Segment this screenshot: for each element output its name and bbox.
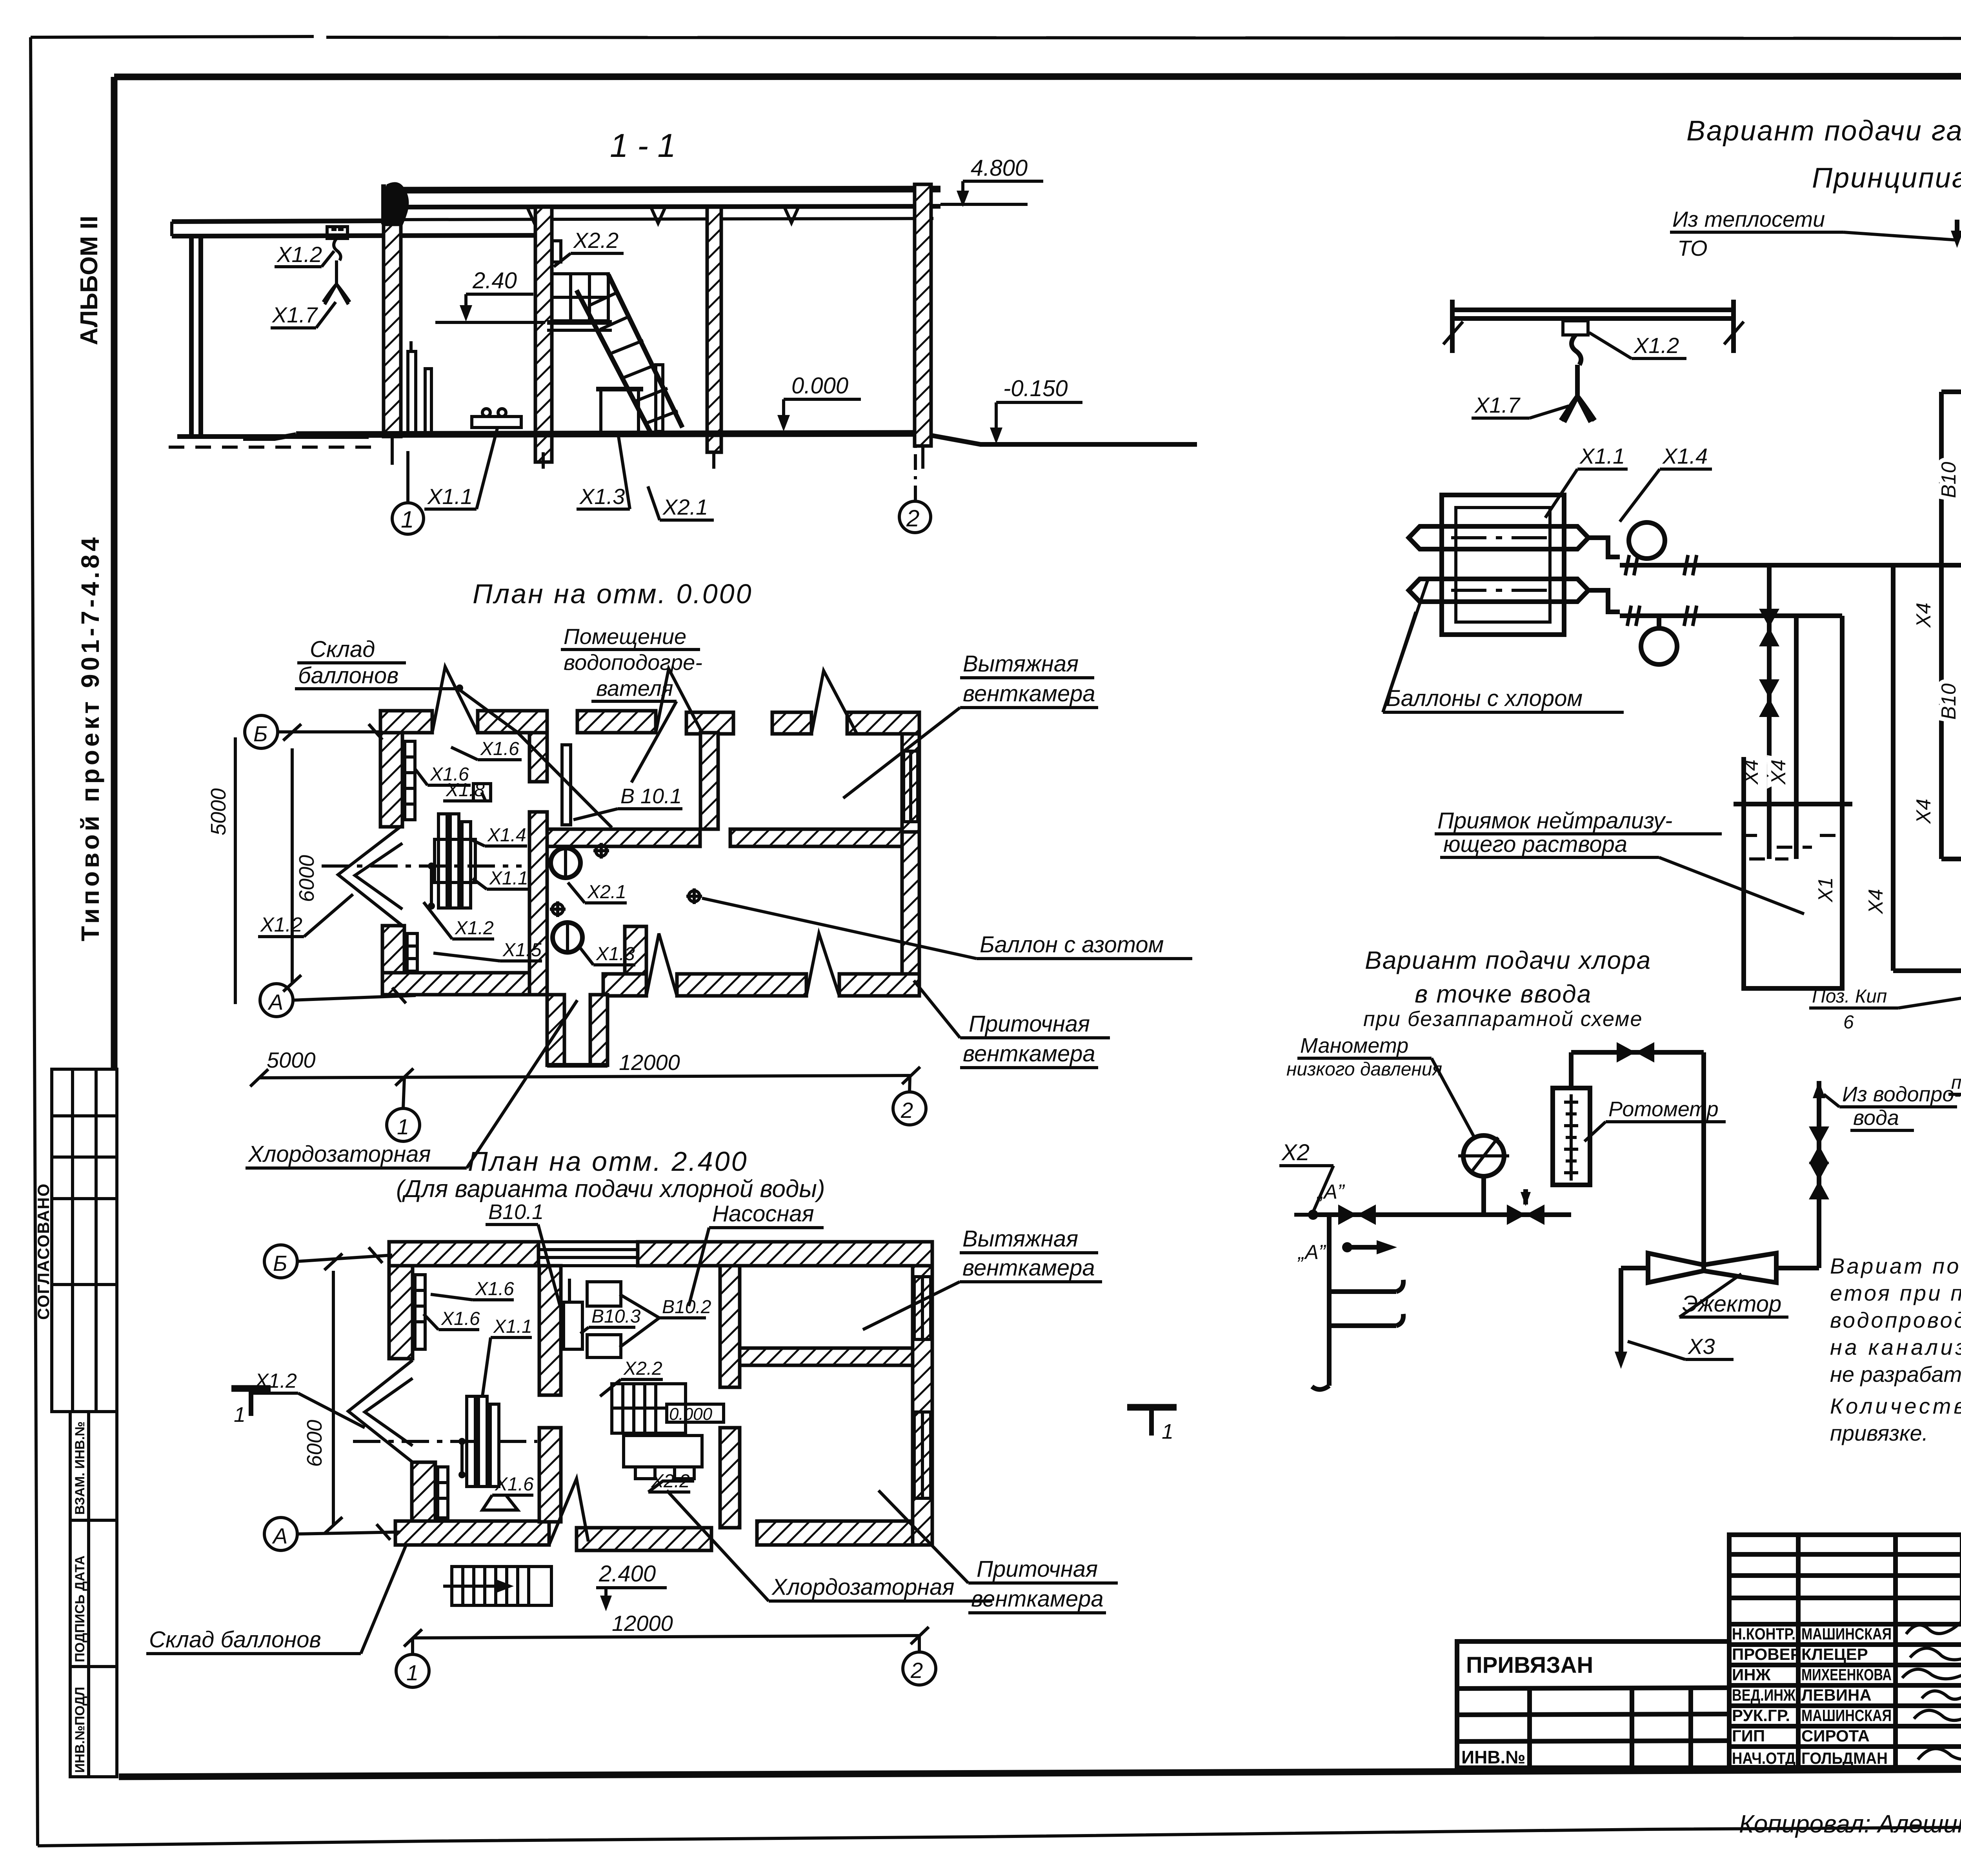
svg-text:Баллоны с хлором: Баллоны с хлором (1386, 686, 1583, 711)
svg-text:X2.1: X2.1 (662, 495, 708, 519)
trolley (schema) (1563, 321, 1588, 335)
axis bubble 1 (plan1) (387, 1078, 420, 1141)
svg-text:Поз. Кип: Поз. Кип (1812, 986, 1887, 1007)
windows right wall (904, 751, 918, 822)
svg-text:Помещение: Помещение (564, 624, 686, 649)
svg-text:X1.1: X1.1 (493, 1316, 532, 1337)
svg-text:(Для варианта подачи хлорной: (Для варианта подачи хлорной воды) (396, 1175, 825, 1203)
svg-text:2: 2 (900, 1098, 913, 1123)
chlorine bottle lower (1409, 579, 1588, 602)
svg-text:Х4: Х4 (1912, 799, 1935, 824)
KIP6 sensor (1809, 971, 1961, 1033)
tambour below (547, 995, 608, 1065)
pipe rotameter top loop (1571, 1042, 1704, 1266)
svg-text:НАЧ.ОТД: НАЧ.ОТД (1732, 1749, 1795, 1767)
level mark 2.40 (435, 268, 545, 322)
ejector outlet to water (1776, 1081, 1829, 1268)
svg-text:при безаппаратной схеме: при безаппаратной схеме (1363, 1007, 1643, 1031)
label X1.3 (section) (577, 431, 630, 509)
svg-text:АЛЬБОМ II: АЛЬБОМ II (76, 216, 103, 345)
X4 X4 rotated labels (1740, 759, 1790, 785)
vertical dim 6000 (plan1) (283, 724, 318, 992)
B10.1 duct (562, 745, 571, 825)
svg-text:План на отм. 0.000: План на отм. 0.000 (473, 579, 753, 609)
wall2 vertical (plan2) (720, 1266, 740, 1387)
parapet above wall1 (381, 184, 386, 224)
svg-text:„А”: „А” (1297, 1241, 1326, 1264)
main roof slab (384, 189, 940, 224)
label iz teploseti TO (1670, 207, 1961, 260)
svg-text:X1.4: X1.4 (487, 825, 526, 846)
axis bubble A (plan2) (264, 1518, 400, 1550)
elevation mark -0.150 (990, 376, 1082, 444)
label B10.1 (plan1) (573, 784, 682, 820)
svg-text:вода: вода (1853, 1106, 1899, 1130)
svg-text:вателя: вателя (596, 676, 673, 701)
valve on tank pipe1 lower (1759, 679, 1779, 717)
vertical dim 6000 (plan2) (303, 1254, 342, 1534)
bottle in room2 (656, 365, 663, 431)
label X2.2 (section) (552, 228, 624, 267)
svg-text:Х4: Х4 (1865, 889, 1887, 914)
svg-text:ЛЕВИНА: ЛЕВИНА (1801, 1686, 1872, 1704)
svg-text:МАШИНСКАЯ: МАШИНСКАЯ (1801, 1706, 1892, 1725)
svg-text:ВЗАМ. ИНВ.№: ВЗАМ. ИНВ.№ (73, 1421, 87, 1515)
left stamp column lower (70, 1412, 117, 1777)
hook below trolley (334, 238, 341, 260)
tank pipe 2 (1794, 616, 1799, 859)
svg-text:Б: Б (273, 1251, 287, 1276)
manometer gauge circle (1458, 1135, 1509, 1215)
svg-text:Х4: Х4 (1767, 759, 1790, 785)
svg-text:Хлордозаторная: Хлордозаторная (771, 1574, 954, 1600)
svg-text:венткамера: венткамера (962, 1255, 1095, 1281)
svg-text:X2.1: X2.1 (587, 882, 626, 903)
annex column (191, 236, 201, 437)
lower X1 line (1893, 957, 1961, 1028)
svg-text:водопроводных станций и смесит: водопроводных станций и смесителей воды … (1830, 1308, 1961, 1332)
svg-text:6000: 6000 (303, 1420, 326, 1467)
svg-text:Копировал: Алешикова: Копировал: Алешикова (1739, 1810, 1961, 1838)
grab X1.7 (schema) (1561, 396, 1595, 422)
svg-text:План на отм. 2.400: План на отм. 2.400 (468, 1146, 748, 1177)
svg-text:X1.3: X1.3 (596, 944, 635, 964)
axis dash-dot horizontal (plan1) (322, 864, 522, 868)
level 2.400 mark (plan2) (596, 1561, 667, 1611)
corridor T wall (625, 926, 646, 974)
svg-text:Приточная: Приточная (969, 1011, 1090, 1037)
svg-text:X1.4: X1.4 (1662, 444, 1708, 468)
svg-text:В10.1: В10.1 (488, 1200, 544, 1224)
svg-text:баллонов: баллонов (298, 663, 398, 688)
svg-text:12000: 12000 (612, 1611, 673, 1636)
svg-text:ющего раствора: ющего раствора (1443, 832, 1627, 857)
door bottom2 (806, 933, 839, 996)
label ballon s azotom (702, 898, 1192, 959)
svg-text:ИНЖ: ИНЖ (1732, 1665, 1771, 1684)
section cut mark 1 left (plan2) (231, 1388, 271, 1427)
dashed underground line (169, 446, 377, 449)
door leaf ventkamera (811, 671, 857, 734)
svg-text:Хлордозаторная: Хлордозаторная (247, 1141, 431, 1167)
axis bubble 1 (plan2) (396, 1638, 429, 1687)
svg-text:X1.2: X1.2 (260, 913, 302, 936)
svg-text:В10: В10 (1937, 462, 1960, 498)
privyazan box (1457, 1641, 1729, 1768)
lower chlorine line (1620, 606, 1842, 626)
svg-text:1: 1 (397, 1114, 409, 1139)
svg-text:X2.2: X2.2 (573, 228, 618, 253)
svg-text:СОГЛАСОВАНО: СОГЛАСОВАНО (34, 1183, 53, 1320)
svg-text:ПОДПИСЬ ДАТА: ПОДПИСЬ ДАТА (73, 1556, 87, 1662)
axis dash-dot (plan2) (353, 1440, 537, 1443)
label X1.4 (schema bottles) (1620, 444, 1712, 522)
vertical dim 5000 (plan1) (207, 737, 235, 1004)
vertical drop with consumer hooks (1312, 1215, 1403, 1390)
svg-text:Приточная: Приточная (977, 1556, 1098, 1582)
svg-text:4.800: 4.800 (971, 155, 1028, 181)
main line tochka vvoda (1313, 1189, 1571, 1225)
svg-text:X1.8: X1.8 (446, 780, 485, 801)
top wall right ventkamera (772, 712, 811, 734)
axis bubble A (plan1) (260, 984, 416, 1017)
svg-text:Вариант подачи хлора: Вариант подачи хлора (1365, 946, 1651, 974)
axis bubble 2 (plan1) (893, 1076, 926, 1125)
main floor slab (243, 433, 915, 439)
svg-text:1: 1 (406, 1660, 418, 1685)
mezzanine landing (547, 322, 612, 330)
top wall (plan2) (389, 1242, 538, 1266)
svg-text:12000: 12000 (619, 1050, 680, 1075)
svg-text:„А”: „А” (1316, 1181, 1345, 1203)
B10 riser (1937, 258, 1961, 1186)
svg-text:водоподогре-: водоподогре- (564, 650, 702, 675)
label nasosnaya (689, 1201, 824, 1306)
label pomeschenie vodopodogrevatelya (561, 624, 702, 782)
bottle lower outlet pipe (1588, 590, 1620, 612)
svg-text:X1.7: X1.7 (1474, 393, 1521, 417)
label X1.1 (section) (424, 428, 497, 509)
svg-text:X1.2: X1.2 (455, 918, 494, 939)
svg-text:Приямок нейтрализу-: Приямок нейтрализу- (1437, 808, 1672, 833)
ejector drain to X3 (1615, 1268, 1648, 1369)
svg-text:венткамера: венткамера (963, 681, 1095, 706)
label X1.2 (schema) (1589, 333, 1686, 358)
svg-text:Вариат подачи хлора в точке вв: Вариат подачи хлора в точке ввода предус… (1830, 1254, 1961, 1278)
label X2 (subschema) (1279, 1140, 1333, 1212)
small cross symbols X2.1 (550, 843, 702, 917)
X4 riser (1912, 392, 1941, 859)
svg-text:1: 1 (401, 506, 414, 533)
label pritochnaya ventkamera (plan2) (879, 1490, 1118, 1613)
bottles frame inner (1456, 508, 1550, 622)
label X1.7 (section) (271, 302, 336, 328)
elevation mark 0.000 (777, 373, 861, 431)
gauge circle upper (1629, 522, 1665, 559)
bottom wall (plan2) (395, 1521, 549, 1545)
annex floor line (177, 434, 369, 439)
left wall lower (382, 926, 404, 973)
platform scale X1.1 (472, 409, 521, 428)
label rotameter (1584, 1097, 1726, 1141)
svg-text:венткамера: венткамера (963, 1041, 1095, 1066)
X1 rotated label tank right (1814, 565, 1893, 971)
axis bubble B (plan2) (264, 1245, 392, 1278)
svg-text:2.40: 2.40 (472, 268, 517, 293)
gate leafs (plan2) (348, 1360, 413, 1462)
top wall heater room (577, 711, 656, 733)
label X1.2 (section) (275, 242, 334, 267)
svg-text:1 - 1: 1 - 1 (610, 127, 676, 164)
upper chlorine line X1 (1620, 555, 1961, 575)
bottle rack (plan2) (458, 1396, 499, 1487)
svg-text:X1.6: X1.6 (495, 1474, 534, 1495)
svg-text:венткамера: венткамера (971, 1586, 1104, 1612)
svg-text:6000: 6000 (295, 855, 318, 902)
neutralizing pit tank (1734, 757, 1852, 988)
svg-text:А: А (272, 1523, 287, 1548)
chlorine bottle upper (1409, 526, 1588, 549)
label priyamok (1435, 808, 1804, 914)
svg-text:X2: X2 (1281, 1140, 1310, 1165)
interior labels plan1 (451, 739, 522, 760)
label X1.1 (schema bottles) (1545, 444, 1628, 518)
gauge circle lower (1641, 628, 1677, 664)
label X3 (1628, 1334, 1734, 1359)
svg-text:2.400: 2.400 (598, 1561, 656, 1587)
interior wall X2.2 side (hatched) (535, 207, 552, 462)
svg-text:X1.2: X1.2 (255, 1370, 297, 1392)
X4 top line (1941, 380, 1961, 406)
horizontal dim line (plan1) (250, 1048, 920, 1086)
svg-text:В10.2: В10.2 (662, 1297, 711, 1317)
middle horizontal wall (547, 829, 700, 846)
stair outside bottom-left (plan2) (443, 1567, 551, 1605)
rotameter (1553, 1088, 1590, 1185)
stairwell 0.000 (plan2) (612, 1384, 724, 1433)
bottle rack X1.1 (plan1) (428, 814, 475, 910)
middle vertical wall (plan2) (539, 1266, 561, 1395)
label X1.7 (schema) (1472, 393, 1569, 418)
subschema title (1363, 946, 1651, 1031)
ground line right (931, 435, 1197, 444)
svg-text:X1.6: X1.6 (480, 739, 519, 759)
label vytyazh ventkamera (plan2) (863, 1226, 1102, 1330)
label vytyazh ventkamera (plan1) (843, 651, 1098, 798)
svg-text:Количество точек ввода определ: Количество точек ввода определяется при (1830, 1394, 1961, 1418)
label manometer (1286, 1034, 1475, 1139)
doser circle X1.3 lower (553, 923, 582, 952)
bottles in room1 (408, 341, 431, 433)
svg-text:X1.1: X1.1 (427, 484, 473, 509)
svg-text:X1.3: X1.3 (579, 484, 625, 509)
svg-text:ВЕД.ИНЖ: ВЕД.ИНЖ (1732, 1686, 1796, 1704)
KIP7 sensor branch (1948, 1072, 1961, 1135)
label sklad ballonov (plan2) (146, 1545, 406, 1654)
windows right wall (plan2) (914, 1277, 931, 1498)
horizontal wall right rooms (plan2) (740, 1348, 932, 1365)
table X1.3 in room2 (596, 389, 643, 431)
svg-text:X2.2: X2.2 (623, 1358, 662, 1379)
hook (schema) (1572, 335, 1581, 365)
axis bubble 2 (section) (899, 447, 931, 533)
svg-text:Принципиальная схема: Принципиальная схема (1812, 162, 1961, 194)
outer label X1.2 (plan1) (258, 894, 353, 937)
bottom wall right part (603, 974, 646, 996)
interior labels plan2 (431, 1279, 514, 1300)
svg-text:2: 2 (910, 1658, 923, 1683)
interior wall 2 (hatched) (707, 207, 721, 452)
svg-text:1: 1 (234, 1403, 246, 1427)
label chlordozatornaya (plan2) (667, 1490, 992, 1601)
svg-text:-0.150: -0.150 (1003, 376, 1068, 401)
door leaf heater room (656, 669, 702, 733)
svg-text:Вытяжная: Вытяжная (963, 651, 1079, 677)
axis bubble B (plan1) (245, 715, 382, 748)
svg-text:X1.2: X1.2 (276, 242, 322, 267)
X2.2 equipment (plan2) (624, 1436, 702, 1479)
svg-text:6: 6 (1843, 1012, 1854, 1033)
label pritochnaya ventkamera (plan1) (914, 981, 1110, 1068)
svg-text:X1.1: X1.1 (489, 868, 528, 889)
axis bubble 2 (plan2) (903, 1636, 936, 1685)
ejector (1648, 1253, 1776, 1283)
gate leafs left (338, 825, 402, 926)
left wall upper (380, 733, 402, 827)
svg-text:X1.7: X1.7 (271, 302, 318, 327)
bottle upper outlet pipe (1588, 538, 1620, 557)
svg-text:ПРОВЕР: ПРОВЕР (1732, 1645, 1801, 1663)
svg-text:не разрабатывается.: не разрабатывается. (1830, 1362, 1961, 1387)
label ejector (1679, 1274, 1788, 1317)
svg-text:X1.6: X1.6 (441, 1308, 480, 1329)
elevation mark 4.800 (940, 155, 1043, 207)
label X2.1 (section) (648, 486, 714, 520)
svg-text:В10.3: В10.3 (591, 1306, 641, 1327)
svg-text:5000: 5000 (207, 788, 230, 835)
svg-text:РУК.ГР.: РУК.ГР. (1732, 1706, 1790, 1725)
svg-text:В 10.1: В 10.1 (620, 784, 682, 808)
door leaf top-left (432, 667, 478, 733)
svg-text:СИРОТА: СИРОТА (1801, 1727, 1870, 1745)
people table (1729, 1535, 1961, 1767)
axis bubble 1 (section) (392, 451, 424, 534)
signatures squiggles (1906, 1622, 1961, 1634)
svg-text:Из водопро-: Из водопро- (1842, 1083, 1961, 1106)
pumps in nasosnaya (564, 1279, 621, 1357)
wall axis1 (hatched) (384, 224, 401, 437)
svg-text:Манометр: Манометр (1300, 1034, 1408, 1057)
foundation ticks (391, 437, 394, 465)
right wall (plan2) (913, 1266, 932, 1545)
stair upper grid (552, 274, 608, 321)
label chlordozatornaya (plan1) (246, 1000, 577, 1168)
louver grid on left walls (405, 741, 417, 971)
section cut mark T1 right (plan2) (1127, 1407, 1177, 1443)
svg-text:МАШИНСКАЯ: МАШИНСКАЯ (1801, 1625, 1892, 1643)
doser circle X1.3 upper (551, 848, 580, 878)
bottom wall skald (382, 973, 547, 995)
X1.8 box (473, 784, 491, 801)
connection point A upper (1294, 1181, 1345, 1220)
svg-text:Склад баллонов: Склад баллонов (149, 1627, 321, 1652)
svg-text:X1.1: X1.1 (1579, 444, 1625, 468)
svg-text:Склад: Склад (310, 637, 375, 662)
svg-text:Х4: Х4 (1912, 602, 1935, 628)
svg-text:низкого давления: низкого давления (1286, 1059, 1442, 1080)
svg-text:А: А (267, 990, 283, 1014)
door bottom1 (646, 933, 677, 996)
X4 lower line (1941, 846, 1961, 872)
door leaf bottom (plan2) (549, 1479, 588, 1545)
annex roof slab (172, 221, 545, 236)
svg-text:5000: 5000 (267, 1048, 316, 1072)
label ballony s chlorom (1383, 580, 1624, 712)
svg-text:ПРИВЯЗАН: ПРИВЯЗАН (1466, 1652, 1593, 1678)
svg-text:Баллон с азотом: Баллон с азотом (980, 932, 1164, 957)
label B10.1 (plan2) (486, 1200, 560, 1306)
ink blotch top-left of roof (384, 182, 409, 239)
grab X1.7 (323, 260, 350, 304)
label iz vodoprovoda (1824, 1083, 1961, 1130)
label X1.2 (plan2) (252, 1370, 365, 1428)
top wall skald room (380, 711, 432, 733)
svg-text:Вариант подачи газообразного: Вариант подачи газообразного хлора (1686, 115, 1961, 147)
svg-text:X1.2: X1.2 (1633, 333, 1679, 358)
svg-text:X1.5: X1.5 (502, 940, 542, 961)
wall axis2 (hatched) (915, 184, 931, 446)
svg-text:Х1: Х1 (1814, 877, 1837, 903)
svg-text:ИНВ.№ПОДЛ: ИНВ.№ПОДЛ (73, 1687, 87, 1773)
monorail beam (schema) (1443, 300, 1744, 353)
svg-text:2: 2 (906, 505, 919, 531)
svg-text:КЛЕЦЕР: КЛЕЦЕР (1801, 1645, 1868, 1663)
rope to grab (1575, 365, 1580, 396)
svg-text:ГОЛЬДМАН: ГОЛЬДМАН (1801, 1749, 1888, 1767)
left stamp table upper (52, 1069, 117, 1412)
louver grids (plan2) (415, 1275, 448, 1518)
svg-text:0.000: 0.000 (791, 373, 848, 398)
svg-text:Вытяжная: Вытяжная (962, 1226, 1078, 1252)
svg-text:Б: Б (253, 721, 267, 746)
svg-text:X3: X3 (1687, 1334, 1715, 1359)
horizontal dim 12000 (plan2) (404, 1611, 929, 1647)
stair flight diagonal (577, 275, 682, 433)
svg-text:1: 1 (1162, 1420, 1173, 1443)
svg-text:МИХЕЕНКОВА: МИХЕЕНКОВА (1801, 1665, 1892, 1684)
connection point A lower (1297, 1240, 1397, 1264)
svg-text:В10: В10 (1937, 683, 1960, 720)
left wall lower (plan2) (412, 1462, 435, 1521)
middle vertical wall (529, 733, 547, 782)
svg-text:ГИП: ГИП (1732, 1727, 1765, 1745)
right wall ventkamera (902, 734, 919, 832)
svg-text:X1.6: X1.6 (475, 1279, 514, 1299)
svg-text:Н.КОНТР.: Н.КОНТР. (1732, 1625, 1795, 1643)
monorail trolley in annex (327, 227, 347, 238)
svg-text:ИНВ.№: ИНВ.№ (1461, 1747, 1526, 1767)
svg-text:ТО: ТО (1677, 236, 1708, 260)
tank pipe 1 (1759, 565, 1779, 859)
svg-text:0.000: 0.000 (669, 1405, 713, 1424)
bottles frame outer (1442, 495, 1564, 635)
svg-text:Из теплосети: Из теплосети (1672, 207, 1825, 231)
heater room right wall (700, 733, 718, 829)
svg-text:в точке ввода: в точке ввода (1415, 980, 1592, 1008)
svg-text:Насосная: Насосная (712, 1201, 814, 1226)
stair grid in top wall (538, 1242, 638, 1266)
svg-text:привязке.: привязке. (1830, 1421, 1928, 1445)
